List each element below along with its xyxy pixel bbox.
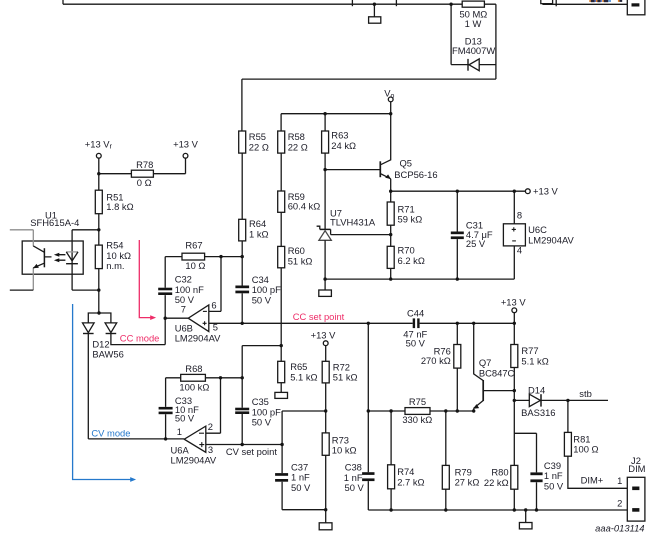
- resistor R80: [511, 465, 518, 489]
- terminal +13V mid: [525, 189, 530, 194]
- wire D12b anode down: [111, 334, 165, 345]
- svg-text:+13 V: +13 V: [501, 296, 527, 307]
- svg-text:2: 2: [208, 421, 213, 432]
- resistor R70: [387, 246, 394, 268]
- svg-text:U6C: U6C: [528, 224, 547, 235]
- wire R72 top: [325, 346, 327, 362]
- wire left ground rail: [282, 509, 326, 511]
- svg-text:50 V: 50 V: [252, 294, 272, 305]
- shunt regulator U7: [320, 228, 331, 230]
- svg-text:10 kΩ: 10 kΩ: [332, 445, 357, 456]
- wire ground stub: [373, 4, 375, 17]
- wire R78 net: [99, 158, 186, 190]
- wire U1 LED top: [72, 229, 99, 231]
- capacitor C33: [159, 407, 173, 414]
- wire tick: [555, 0, 557, 6]
- wire Q5 emitter: [390, 179, 392, 191]
- terminal Vo: [388, 97, 393, 102]
- wire C31 top: [456, 191, 458, 231]
- svg-text:22 Ω: 22 Ω: [249, 141, 269, 152]
- wire R55-R64: [241, 153, 243, 219]
- wire R60-R65: [280, 268, 282, 362]
- svg-text:C44: C44: [407, 308, 424, 319]
- svg-text:25 V: 25 V: [466, 238, 486, 249]
- svg-text:22 Ω: 22 Ω: [288, 141, 308, 152]
- resistor 50 Mohm: [462, 1, 484, 7]
- wire U6B pin7: [165, 317, 188, 319]
- connector J1: [627, 0, 645, 15]
- resistor R54: [95, 245, 102, 269]
- svg-text:5.1 kΩ: 5.1 kΩ: [290, 372, 317, 383]
- wire R74: [390, 411, 392, 465]
- wire D13 right: [495, 4, 497, 79]
- wire mid ground rail: [325, 278, 514, 280]
- wire U1 emitter gray: [32, 268, 34, 290]
- svg-text:BCP56-16: BCP56-16: [394, 169, 437, 180]
- svg-text:D14: D14: [528, 385, 545, 396]
- wire C35 column: [241, 346, 243, 445]
- svg-text:LM2904AV: LM2904AV: [175, 333, 221, 344]
- resistor R58: [278, 131, 285, 153]
- connector J2: [627, 477, 645, 521]
- transistor U1: [43, 248, 45, 267]
- resistor R74: [388, 465, 395, 489]
- svg-text:50 V: 50 V: [406, 338, 426, 349]
- resistor R65: [278, 361, 285, 382]
- svg-text:BC847C: BC847C: [479, 367, 515, 378]
- wire Q7 base: [483, 390, 514, 392]
- svg-text:50 V: 50 V: [544, 480, 564, 491]
- svg-text:1 kΩ: 1 kΩ: [249, 228, 269, 239]
- wire U1 LED bottom: [72, 289, 99, 291]
- svg-text:50 V: 50 V: [252, 417, 272, 428]
- svg-text:100 pF: 100 pF: [252, 406, 281, 417]
- resistor R55: [239, 131, 246, 153]
- svg-text:CV set point: CV set point: [226, 446, 277, 457]
- capacitor C44: [413, 318, 420, 328]
- svg-text:6: 6: [211, 300, 216, 311]
- svg-text:59 kΩ: 59 kΩ: [398, 214, 423, 225]
- connector fragment top: [541, 0, 553, 4]
- svg-text:51 kΩ: 51 kΩ: [288, 255, 313, 266]
- svg-text:aaa-013114: aaa-013114: [595, 522, 644, 533]
- transistor Q7: [482, 380, 484, 401]
- svg-text:BAS316: BAS316: [521, 407, 555, 418]
- svg-text:3: 3: [208, 444, 213, 455]
- svg-text:7: 7: [181, 303, 186, 314]
- wire R75 net: [368, 410, 473, 412]
- wire R79: [445, 411, 447, 465]
- svg-text:100 Ω: 100 Ω: [573, 444, 598, 455]
- wire R72-R73: [325, 383, 327, 433]
- svg-text:CV mode: CV mode: [91, 428, 130, 439]
- optocoupler U1 box: [22, 241, 83, 274]
- wire tick: [395, 0, 397, 6]
- wire Vo feed: [242, 78, 496, 80]
- capacitor C32: [158, 288, 172, 295]
- CC mode arrow red: [139, 240, 151, 318]
- svg-text:CC set point: CC set point: [293, 311, 345, 322]
- terminal +13V right: [512, 308, 517, 313]
- wire U1 collector gray: [10, 230, 34, 246]
- wire R63 top: [324, 114, 326, 131]
- wire C33 column: [165, 378, 167, 439]
- ground: [369, 17, 381, 23]
- opamp U6C supply box: [503, 224, 525, 246]
- svg-text:CC mode: CC mode: [120, 332, 160, 343]
- diode D13: [467, 59, 469, 71]
- capacitor C34: [235, 286, 249, 294]
- wire D12a anode down: [87, 334, 89, 439]
- wire ground stub right: [525, 510, 527, 523]
- wire top bus: [63, 3, 496, 5]
- wire R58 top: [280, 114, 282, 131]
- svg-text:50 V: 50 V: [175, 413, 195, 424]
- wire DIM+: [568, 456, 627, 488]
- terminal +13V cv: [323, 341, 328, 346]
- svg-text:stb: stb: [579, 388, 592, 399]
- svg-text:4: 4: [517, 244, 522, 255]
- wire R51-R54: [98, 214, 100, 245]
- svg-text:8: 8: [517, 209, 522, 220]
- capacitor C31: [451, 232, 464, 240]
- svg-text:51 kΩ: 51 kΩ: [333, 372, 358, 383]
- wire R65 ground stub: [280, 383, 282, 393]
- top edge colored fragments: [589, 0, 639, 7]
- svg-text:2.7 kΩ: 2.7 kΩ: [397, 476, 424, 487]
- svg-text:2: 2: [617, 497, 622, 508]
- capacitor C35: [235, 408, 249, 414]
- wire U7 ground stub: [324, 279, 326, 290]
- opamp U6B: [188, 305, 209, 332]
- svg-text:1 nF: 1 nF: [291, 472, 310, 483]
- wire R81: [567, 400, 569, 432]
- wire D13 anode: [451, 64, 496, 66]
- svg-text:50 V: 50 V: [291, 482, 311, 493]
- svg-text:50 V: 50 V: [345, 482, 365, 493]
- opamp U6A: [184, 426, 206, 452]
- svg-text:1: 1: [617, 475, 622, 486]
- wire U7 cathode out: [331, 234, 391, 236]
- wire CC set point: [209, 322, 515, 324]
- diode D12b: [105, 323, 117, 333]
- resistor R51: [95, 190, 102, 214]
- svg-text:SFH615A-4: SFH615A-4: [30, 217, 79, 228]
- terminal +13Vr: [96, 153, 101, 158]
- svg-text:22 kΩ: 22 kΩ: [484, 477, 509, 488]
- resistor R71: [387, 202, 394, 225]
- svg-text:LM2904AV: LM2904AV: [528, 235, 574, 246]
- svg-text:DIM: DIM: [628, 463, 645, 474]
- svg-text:5.1 kΩ: 5.1 kΩ: [521, 355, 548, 366]
- wire U6C pin4: [513, 246, 515, 279]
- wire C34-CCwire: [241, 293, 243, 323]
- diode D14: [529, 394, 540, 406]
- svg-text:R67: R67: [185, 240, 202, 251]
- svg-text:1: 1: [177, 426, 182, 437]
- wire R71: [390, 191, 392, 202]
- resistor R81: [564, 432, 571, 456]
- ground: [319, 290, 332, 296]
- wire C35 top to R65 column: [242, 345, 281, 347]
- svg-text:R75: R75: [409, 396, 426, 407]
- svg-text:R77: R77: [521, 345, 538, 356]
- wire D12 split: [88, 313, 111, 323]
- resistor R73: [322, 433, 329, 455]
- svg-text:+13 V: +13 V: [533, 185, 559, 196]
- wire C39: [514, 433, 536, 510]
- resistor R60: [278, 246, 285, 267]
- ground: [275, 392, 288, 398]
- wire R72R73 tap: [282, 410, 326, 412]
- wire R54-D12: [98, 269, 100, 314]
- wire U7 column top: [324, 153, 326, 229]
- wire R67 net: [165, 256, 242, 258]
- wire C32 column: [164, 257, 166, 345]
- terminal +13V left: [183, 153, 188, 158]
- svg-text:FM4007W: FM4007W: [452, 45, 495, 56]
- svg-text:100 kΩ: 100 kΩ: [179, 381, 209, 392]
- CV mode arrow blue: [73, 304, 132, 480]
- svg-text:24 kΩ: 24 kΩ: [331, 140, 356, 151]
- wire D13 left: [450, 4, 452, 64]
- wire U6C pin8: [513, 191, 515, 224]
- wire R76: [456, 323, 458, 344]
- wire R58-R59: [280, 153, 282, 191]
- svg-text:DIM+: DIM+: [581, 475, 604, 486]
- wire R77 column: [513, 313, 515, 345]
- svg-text:+13 V: +13 V: [311, 330, 337, 341]
- ground: [519, 523, 532, 529]
- svg-text:5: 5: [213, 321, 218, 332]
- capacitor C39: [530, 472, 542, 482]
- svg-text:BAW56: BAW56: [92, 349, 123, 360]
- svg-text:6.2 kΩ: 6.2 kΩ: [398, 255, 425, 266]
- wire R55 top: [241, 79, 243, 131]
- svg-text:R78: R78: [136, 159, 153, 170]
- resistor R67: [182, 253, 205, 260]
- svg-text:+13 V: +13 V: [173, 138, 199, 149]
- wire Q7 emitter: [473, 408, 475, 411]
- svg-text:Q5: Q5: [400, 157, 413, 168]
- wire C37 column: [281, 411, 283, 510]
- svg-text:0 Ω: 0 Ω: [137, 177, 152, 188]
- wire U6B pin6: [209, 257, 221, 312]
- wire Q5 base: [325, 169, 380, 171]
- svg-text:R68: R68: [185, 363, 202, 374]
- resistor R64: [239, 219, 246, 241]
- wire Q5 collector: [381, 102, 391, 165]
- svg-text:+13 Vr: +13 Vr: [85, 138, 113, 150]
- wire U6A pin1: [88, 438, 184, 440]
- svg-text:10 Ω: 10 Ω: [185, 260, 205, 271]
- diode D12a: [83, 323, 95, 333]
- wire R59-R60: [280, 212, 282, 246]
- wire U1 emitter bottom: [10, 289, 34, 291]
- resistor R77: [511, 345, 518, 368]
- svg-text:60.4 kΩ: 60.4 kΩ: [288, 201, 321, 212]
- wire R68 net: [166, 377, 243, 379]
- svg-text:n.m.: n.m.: [106, 260, 124, 271]
- resistor R75: [405, 408, 430, 415]
- wire R70 bottom: [390, 268, 392, 279]
- resistor R63: [322, 131, 329, 153]
- capacitor C38: [362, 472, 374, 481]
- light arrows: [58, 255, 65, 261]
- svg-text:330 kΩ: 330 kΩ: [402, 414, 432, 425]
- wire CV set point: [206, 444, 282, 446]
- svg-text:C37: C37: [291, 461, 308, 472]
- svg-text:27 kΩ: 27 kΩ: [455, 477, 480, 488]
- svg-text:1 W: 1 W: [465, 18, 482, 29]
- wire U6A pin2: [206, 378, 221, 433]
- LED U1: [71, 230, 73, 290]
- wire R73 bottom + ground stub: [325, 455, 327, 523]
- resistor R72: [322, 361, 329, 383]
- svg-text:270 kΩ: 270 kΩ: [421, 355, 451, 366]
- wire C38 column: [367, 323, 369, 510]
- resistor R78: [131, 170, 153, 177]
- svg-text:TLVH431A: TLVH431A: [330, 217, 376, 228]
- wire R64-C34: [241, 241, 243, 286]
- wire R71-R70: [390, 225, 392, 246]
- wire top right bus: [542, 3, 627, 5]
- wire C31 bottom: [456, 239, 458, 279]
- svg-text:1.8 kΩ: 1.8 kΩ: [106, 201, 133, 212]
- svg-text:C35: C35: [252, 396, 269, 407]
- ground: [319, 523, 332, 530]
- transistor Q5: [379, 161, 381, 177]
- resistor R68: [181, 374, 206, 381]
- node top rail y=114: [281, 113, 391, 115]
- wire +13V rail: [391, 190, 526, 192]
- wire D14: [514, 399, 608, 401]
- wire bottom ground rail: [368, 509, 627, 511]
- resistor R79: [442, 465, 449, 489]
- capacitor C37: [275, 473, 288, 482]
- resistor R76: [454, 345, 461, 369]
- resistor R59: [278, 191, 285, 212]
- wire tick: [351, 0, 353, 6]
- wire top bus stub: [62, 0, 64, 4]
- wire Q7 collector: [474, 323, 483, 380]
- svg-text:LM2904AV: LM2904AV: [171, 455, 217, 466]
